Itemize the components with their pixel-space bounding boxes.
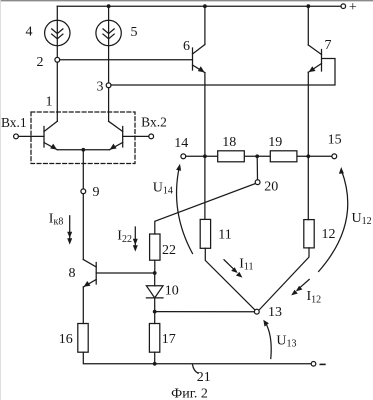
junction emitter 6 on rail — [203, 154, 207, 158]
resistor 18 — [218, 151, 245, 162]
wire emitter 8 to resistor 16 — [82, 287, 84, 324]
arrow arc U13 — [263, 320, 271, 359]
svg-text:14: 14 — [174, 136, 188, 151]
arrow I22 — [133, 227, 138, 252]
junction emitter 7 on rail — [306, 154, 310, 158]
resistor 16 — [78, 324, 88, 353]
svg-text:11: 11 — [218, 228, 231, 243]
svg-text:I22: I22 — [117, 229, 132, 245]
node 13 — [254, 309, 259, 314]
svg-text:15: 15 — [328, 132, 342, 147]
svg-text:9: 9 — [93, 185, 100, 200]
svg-text:Вх.1: Вх.1 — [1, 115, 27, 130]
junction base 8 / resistor 22 / diode 10 — [153, 271, 157, 275]
node 20 — [255, 180, 260, 185]
svg-text:5: 5 — [131, 25, 138, 40]
wire node 9 to collector of 8 — [82, 194, 84, 260]
svg-text:I12: I12 — [307, 289, 322, 305]
wire resistor 17 to negative rail — [154, 352, 156, 364]
arrow arc U14 — [176, 164, 192, 254]
svg-text:13: 13 — [268, 305, 282, 320]
node 9 — [81, 189, 86, 194]
resistor 12 — [304, 220, 314, 248]
input pair left transistor — [44, 121, 57, 150]
terminal + — [341, 4, 346, 9]
transistor 7 — [308, 6, 321, 72]
svg-text:U13: U13 — [276, 333, 296, 349]
wire node3 to base loop of 7 — [111, 59, 335, 86]
wire junction to node 13 — [155, 311, 255, 313]
svg-text:6: 6 — [183, 39, 190, 54]
wire positive rail — [57, 5, 341, 7]
svg-text:16: 16 — [59, 332, 73, 347]
wire node2 down to collector of input pair — [56, 62, 58, 121]
current source 4 — [45, 6, 70, 57]
junction between 18 and 19 — [255, 154, 259, 158]
svg-text:19: 19 — [268, 135, 282, 150]
wire emitter 6 down to resistor 11 — [204, 73, 206, 220]
resistor 22 — [150, 234, 160, 260]
svg-text:4: 4 — [26, 24, 33, 39]
terminal - — [311, 362, 316, 367]
node junction on rail (collector 6) — [203, 4, 207, 8]
svg-text:18: 18 — [222, 135, 236, 150]
node 14 — [181, 154, 186, 159]
node 2 — [55, 57, 60, 62]
resistor 17 — [149, 324, 159, 353]
wire resistor 12 to node 13 — [259, 248, 309, 310]
svg-text:20: 20 — [264, 179, 278, 194]
transistor 6 — [193, 6, 205, 72]
svg-text:10: 10 — [165, 284, 179, 299]
svg-text:+: + — [349, 0, 357, 15]
wire common emitter to node 9 — [82, 150, 84, 189]
node junction on rail (source 5) — [107, 4, 111, 8]
wire Вх.1 to base — [18, 135, 44, 137]
wire node2 to base of 6 — [60, 59, 193, 61]
wire resistor 11 to node 13 — [205, 248, 255, 310]
junction on negative rail — [153, 362, 157, 366]
junction diode / resistor 17 / wire to 13 — [153, 310, 157, 314]
wire junction to node 20 — [256, 156, 258, 180]
resistor 11 — [200, 219, 210, 248]
svg-text:Iк8: Iк8 — [49, 212, 64, 228]
node 3 — [106, 83, 111, 88]
svg-text:U14: U14 — [153, 180, 173, 196]
svg-text:7: 7 — [325, 38, 332, 53]
svg-text:21: 21 — [197, 370, 211, 385]
node 15 — [332, 154, 337, 159]
current source 5 — [96, 6, 121, 83]
svg-text:2: 2 — [37, 55, 44, 70]
junction common emitter — [81, 148, 85, 152]
dashed block 1 — [31, 112, 135, 164]
wire rail 14-15 — [186, 155, 332, 157]
svg-text:Фиг. 2: Фиг. 2 — [171, 386, 208, 400]
wire emitter 7 down to resistor 12 — [307, 72, 309, 219]
arrow I11 — [224, 260, 242, 278]
input terminal Вх.2 — [149, 134, 154, 139]
svg-text:3: 3 — [97, 79, 104, 94]
svg-text:22: 22 — [162, 243, 176, 258]
arrow arc U12 — [319, 167, 348, 272]
svg-text:17: 17 — [162, 332, 176, 347]
wire common emitters — [57, 149, 109, 151]
node junction on rail (collector 7) — [306, 4, 310, 8]
label 21 with leader — [193, 365, 199, 374]
transistor 8 — [83, 260, 154, 288]
svg-text:8: 8 — [69, 266, 76, 281]
svg-text:U12: U12 — [352, 211, 372, 227]
wire resistor 22 bottom to diode junction — [154, 260, 156, 273]
input pair right transistor — [109, 121, 123, 150]
svg-text:1: 1 — [46, 95, 53, 110]
wire base to Вх.2 — [123, 135, 149, 137]
diode 10 — [146, 273, 163, 324]
wire node3 down to collector of input pair — [108, 88, 110, 122]
scan edge line top — [0, 0, 373, 2]
svg-text:Вх.2: Вх.2 — [141, 115, 167, 130]
input terminal Вх.1 — [14, 134, 19, 139]
svg-text:I11: I11 — [239, 257, 253, 273]
arrow Iк8 — [67, 216, 72, 245]
resistor 19 — [270, 151, 297, 162]
svg-text:12: 12 — [322, 227, 336, 242]
wire resistor 16 to negative rail — [83, 352, 311, 364]
wire node 20 to resistor 22 — [155, 184, 256, 235]
arrow I12 — [291, 279, 309, 295]
